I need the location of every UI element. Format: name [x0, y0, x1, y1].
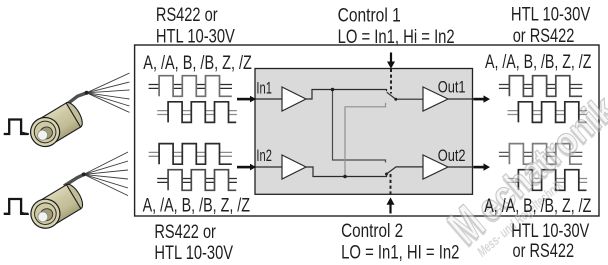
svg-text:HTL 10-30V: HTL 10-30V — [156, 25, 235, 47]
svg-text:HTL 10-30V: HTL 10-30V — [154, 242, 233, 264]
svg-text:RS422 or: RS422 or — [154, 221, 216, 243]
svg-text:RS422 or: RS422 or — [156, 4, 218, 26]
svg-text:or RS422: or RS422 — [513, 240, 575, 262]
svg-text:LO = In1, Hi = In2: LO = In1, Hi = In2 — [338, 26, 455, 48]
svg-text:HTL 10-30V: HTL 10-30V — [511, 220, 589, 242]
svg-text:HTL 10-30V: HTL 10-30V — [511, 3, 590, 25]
svg-text:LO = In1, HI = In2: LO = In1, HI = In2 — [341, 241, 459, 263]
svg-text:Control 2: Control 2 — [341, 220, 403, 242]
svg-text:A, /A, B, /B, Z, /Z: A, /A, B, /B, Z, /Z — [143, 52, 252, 74]
svg-text:A, /A, B, /B, Z, /Z: A, /A, B, /B, Z, /Z — [484, 195, 591, 217]
svg-text:Control 1: Control 1 — [338, 5, 401, 27]
svg-text:Out2: Out2 — [438, 146, 466, 165]
svg-text:A, /A, B, /B, Z, /Z: A, /A, B, /B, Z, /Z — [485, 51, 591, 73]
svg-text:In1: In1 — [256, 78, 272, 97]
svg-text:or RS422: or RS422 — [513, 25, 575, 47]
svg-text:Out1: Out1 — [438, 78, 466, 97]
svg-text:In2: In2 — [256, 146, 272, 165]
svg-text:A, /A, B, /B, Z, /Z: A, /A, B, /B, Z, /Z — [143, 195, 250, 217]
